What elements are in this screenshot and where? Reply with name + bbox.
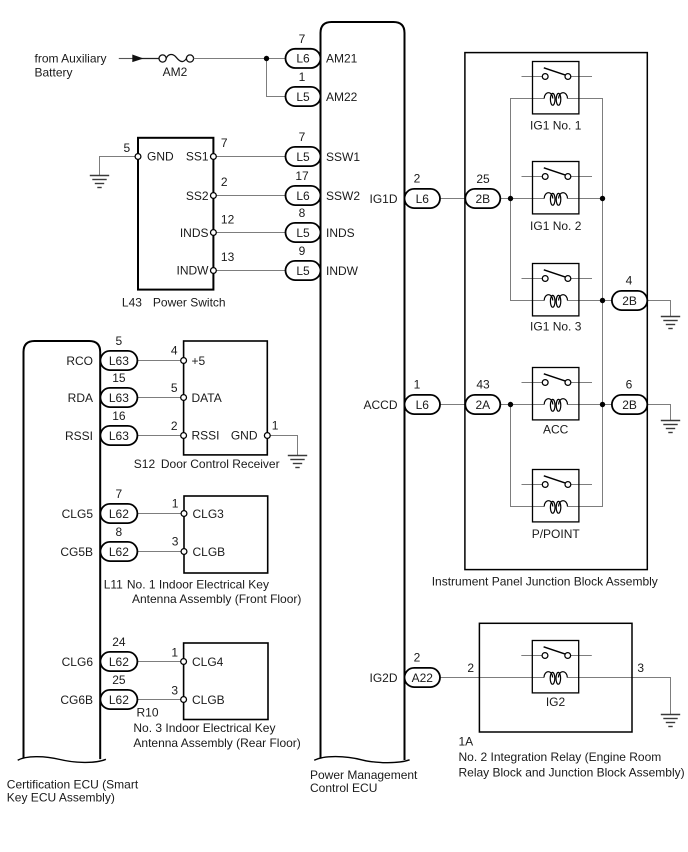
svg-text:IG1 No. 2: IG1 No. 2 [530, 219, 582, 233]
label L11 No. 1 Indoor Electrical Key Antenna Assembly [104, 578, 302, 606]
svg-text:IG2: IG2 [546, 695, 566, 709]
label 1A No. 2 Integration Relay [459, 735, 685, 780]
svg-text:ACC: ACC [543, 422, 569, 436]
wire CLG6 to CLG4 [137, 661, 183, 663]
connector A22 pin 2 (IG2D) [405, 651, 441, 688]
svg-text:CLG5: CLG5 [62, 507, 94, 521]
svg-text:2B: 2B [622, 398, 637, 412]
wire: fuse to AM21 [194, 58, 286, 60]
pin 4 (+5) [181, 358, 187, 364]
wire IG1D L6 to 2B [440, 198, 466, 200]
svg-text:2: 2 [221, 175, 228, 189]
ground: 2B pin 6 [661, 421, 680, 433]
svg-text:AM22: AM22 [326, 90, 358, 104]
svg-text:25: 25 [112, 673, 126, 687]
wire: left rail ACC/PPOINT [511, 405, 533, 507]
wire SS1 to SSW1 connector [216, 156, 285, 158]
wire: branch down to AM22 [267, 59, 286, 97]
connector 2B pin 25 [465, 172, 500, 208]
svg-text:5: 5 [116, 334, 123, 348]
pin 2 SS2 [211, 193, 217, 199]
svg-text:8: 8 [116, 525, 123, 539]
svg-text:INDS: INDS [180, 226, 209, 240]
label Power Management Control ECU [310, 768, 418, 795]
svg-text:Key ECU Assembly): Key ECU Assembly) [7, 791, 115, 805]
pin 5 GND of power switch [135, 154, 141, 160]
svg-text:L63: L63 [109, 354, 129, 368]
node: battery branch junction [264, 56, 269, 61]
svg-text:CG6B: CG6B [60, 693, 93, 707]
connector 2B pin 4 [612, 274, 647, 310]
pin 13 INDW [211, 268, 217, 274]
wire INDW [216, 270, 285, 272]
connector L6 pin 7 (AM21) [286, 32, 321, 68]
relay P/POINT [522, 470, 593, 542]
pin 5 (DATA) [181, 395, 187, 401]
node junction left rail IG1D [508, 196, 513, 201]
svg-text:L6: L6 [416, 398, 430, 412]
svg-text:No. 3 Indoor Electrical Key: No. 3 Indoor Electrical Key [133, 721, 275, 735]
arrow: from Auxiliary Battery [132, 55, 143, 63]
svg-text:7: 7 [221, 136, 228, 150]
svg-text:IG1 No. 3: IG1 No. 3 [530, 319, 582, 333]
svg-text:3: 3 [637, 661, 644, 675]
S12 internal labels [192, 354, 258, 443]
svg-text:9: 9 [299, 244, 306, 258]
wire SS2 to SSW2 connector [216, 195, 285, 197]
node junction right rail ACC [600, 402, 605, 407]
svg-text:L62: L62 [109, 693, 129, 707]
svg-text:1: 1 [414, 378, 421, 392]
relay IG1 No. 2 [522, 162, 593, 233]
svg-text:7: 7 [299, 32, 306, 46]
wire RDA to DATA [137, 397, 183, 399]
svg-text:from Auxiliary: from Auxiliary [35, 52, 107, 66]
svg-text:RSSI: RSSI [192, 429, 220, 443]
pin 3 (CLGB) [181, 549, 187, 555]
svg-text:L5: L5 [296, 150, 310, 164]
wire CG6B to CLGB [137, 699, 183, 701]
svg-text:INDW: INDW [326, 264, 359, 278]
relay IG2 [521, 641, 592, 709]
node junction right rail IG1No3 [600, 298, 605, 303]
svg-text:INDW: INDW [177, 264, 210, 278]
svg-text:L62: L62 [109, 507, 129, 521]
svg-text:1: 1 [272, 418, 279, 432]
ground: 2B pin 4 [661, 317, 680, 329]
svg-text:L5: L5 [296, 226, 310, 240]
Certification ECU outline [24, 341, 101, 759]
svg-text:6: 6 [626, 378, 633, 392]
ground: power switch GND [90, 176, 109, 188]
L11 internal labels [193, 507, 226, 559]
svg-text:1A: 1A [459, 735, 474, 749]
svg-text:Relay Block and Junction Block: Relay Block and Junction Block Assembly) [459, 765, 685, 779]
connector L6 pin 2 (IG1D) [405, 172, 441, 209]
wire IG2 coil to ground [579, 678, 671, 715]
svg-text:2: 2 [467, 661, 474, 675]
wire IG1 No.3 coil to 2B pin 4 [579, 300, 612, 302]
svg-text:3: 3 [171, 683, 178, 697]
connector 2A pin 43 [465, 378, 500, 414]
power switch internal labels [147, 150, 209, 278]
pin 7 SS1 [211, 154, 217, 160]
svg-text:Antenna Assembly (Rear Floor): Antenna Assembly (Rear Floor) [133, 736, 300, 750]
svg-text:43: 43 [476, 378, 490, 392]
svg-text:L63: L63 [109, 429, 129, 443]
relay ACC [522, 368, 593, 437]
svg-text:24: 24 [112, 635, 126, 649]
pin 3 (CLGB) [181, 697, 187, 703]
wire ACC coil to 2B pin 6 [579, 404, 612, 406]
label S12 Door Control Receiver [134, 457, 280, 471]
svg-text:2B: 2B [622, 294, 637, 308]
pin 12 INDS [211, 230, 217, 236]
wire: power switch GND to ground [100, 157, 136, 176]
svg-text:Power Switch: Power Switch [153, 295, 226, 309]
svg-text:RCO: RCO [66, 354, 93, 368]
pin 1 (GND) [264, 433, 270, 439]
node junction left rail ACCD [508, 402, 513, 407]
node junction right rail IG1No2 [600, 196, 605, 201]
svg-text:S12: S12 [134, 457, 156, 471]
svg-text:A22: A22 [412, 671, 434, 685]
connector L62 pin 24 (CLG6) [100, 635, 137, 671]
svg-text:SS1: SS1 [186, 150, 209, 164]
svg-text:3: 3 [172, 535, 179, 549]
R10 internal labels [192, 655, 225, 707]
svg-text:R10: R10 [137, 706, 159, 720]
svg-text:Antenna Assembly (Front Floor): Antenna Assembly (Front Floor) [132, 592, 301, 606]
R10 antenna box [184, 643, 268, 720]
wire 2B to IG1 No.2 coil [500, 198, 532, 200]
svg-text:5: 5 [171, 381, 178, 395]
svg-text:AM2: AM2 [163, 65, 188, 79]
svg-text:25: 25 [476, 172, 490, 186]
svg-text:7: 7 [299, 130, 306, 144]
svg-text:4: 4 [626, 274, 633, 288]
svg-text:16: 16 [112, 409, 126, 423]
svg-text:IG2D: IG2D [369, 671, 397, 685]
svg-text:8: 8 [299, 206, 306, 220]
svg-text:RDA: RDA [68, 391, 93, 405]
svg-text:L6: L6 [296, 52, 310, 66]
fuse AM2 [159, 54, 194, 62]
pin 2 (RSSI) [181, 433, 187, 439]
connector L63 pin 16 (RSSI) [100, 409, 137, 445]
connector L5 pin 1 (AM22) [286, 70, 321, 106]
svg-text:15: 15 [112, 371, 126, 385]
svg-text:L62: L62 [109, 655, 129, 669]
svg-text:CLG6: CLG6 [62, 655, 94, 669]
wire S12 GND to ground [267, 436, 297, 456]
connector L62 pin 25 (CG6B) [100, 673, 137, 709]
svg-text:GND: GND [147, 150, 174, 164]
svg-text:P/POINT: P/POINT [532, 527, 581, 541]
connector L6 pin 1 (ACCD) [405, 378, 441, 415]
svg-text:DATA: DATA [192, 391, 222, 405]
svg-text:L63: L63 [109, 391, 129, 405]
connector L6 pin 17 (SSW2) [286, 169, 321, 205]
svg-text:2: 2 [414, 172, 421, 186]
wire CG5B to CLGB [137, 551, 184, 553]
wire IG1 No.2 coil to right rail [579, 198, 603, 200]
svg-text:No. 2 Integration Relay (Engin: No. 2 Integration Relay (Engine Room [459, 750, 662, 764]
connector 2B pin 6 [612, 378, 647, 414]
svg-text:12: 12 [221, 212, 235, 226]
svg-text:L62: L62 [109, 545, 129, 559]
wire INDS [216, 232, 285, 234]
wire: battery feed to AM2 fuse [119, 58, 133, 60]
relay IG1 No. 1 [522, 62, 593, 133]
svg-text:GND: GND [231, 429, 258, 443]
svg-text:CLGB: CLGB [193, 545, 226, 559]
svg-text:AM21: AM21 [326, 52, 358, 66]
svg-text:Certification ECU (Smart: Certification ECU (Smart [7, 778, 139, 792]
wire RSSI to RSSI [137, 435, 183, 437]
connector L5 pin 8 (INDS) [286, 206, 321, 242]
wire 2A to ACC coil [500, 404, 532, 406]
L11 antenna box [184, 496, 268, 573]
label R10 No. 3 Indoor Electrical Key Antenna Assembly [133, 706, 300, 750]
svg-text:CG5B: CG5B [60, 545, 93, 559]
svg-text:2A: 2A [475, 398, 490, 412]
svg-text:+5: +5 [192, 354, 206, 368]
wire 2B pin4 to ground [647, 301, 670, 317]
svg-text:7: 7 [116, 487, 123, 501]
connector L62 pin 8 (CG5B) [100, 525, 137, 561]
pin 1 (CLG4) [181, 659, 187, 665]
svg-text:L6: L6 [296, 189, 310, 203]
wire ACCD L6 to 2A [440, 404, 466, 406]
svg-text:L43: L43 [122, 295, 142, 309]
connector L62 pin 7 (CLG5) [100, 487, 137, 523]
svg-text:RSSI: RSSI [65, 429, 93, 443]
svg-text:2: 2 [171, 419, 178, 433]
svg-text:INDS: INDS [326, 226, 355, 240]
svg-text:IG1D: IG1D [369, 192, 397, 206]
svg-text:1: 1 [172, 496, 179, 510]
svg-text:Control ECU: Control ECU [310, 781, 377, 795]
ground: IG2 relay [661, 715, 680, 727]
svg-text:L5: L5 [296, 90, 310, 104]
wire A22 to IG2 coil [440, 677, 532, 679]
wire: left rail IG1 coils [511, 99, 533, 301]
svg-text:CLG4: CLG4 [192, 655, 224, 669]
No. 2 Integration Relay box [479, 623, 632, 732]
svg-text:Instrument Panel Junction Bloc: Instrument Panel Junction Block Assembly [432, 574, 658, 588]
svg-text:Power Management: Power Management [310, 768, 418, 782]
Instrument Panel Junction Block Assembly box [465, 53, 647, 570]
connector L5 pin 7 (SSW1) [286, 130, 321, 166]
label Certification ECU [7, 778, 139, 805]
relay IG1 No. 3 [522, 264, 593, 334]
ground: S12 GND [288, 456, 307, 468]
connector L5 pin 9 (INDW) [286, 244, 321, 280]
svg-text:L11: L11 [104, 578, 123, 592]
Power Management Control ECU outline [321, 22, 405, 760]
svg-text:2: 2 [414, 651, 421, 665]
power switch L43 box [138, 138, 213, 290]
svg-text:Door Control Receiver: Door Control Receiver [161, 457, 280, 471]
svg-text:4: 4 [171, 344, 178, 358]
wire: right rail relay coils [579, 99, 603, 507]
Certification ECU wavy bottom [18, 757, 106, 763]
svg-text:1: 1 [171, 645, 178, 659]
svg-text:Battery: Battery [35, 65, 73, 79]
svg-text:13: 13 [221, 250, 235, 264]
svg-text:L6: L6 [416, 192, 430, 206]
svg-text:ACCD: ACCD [363, 398, 397, 412]
svg-text:5: 5 [124, 141, 131, 155]
pin 1 (CLG3) [181, 511, 187, 517]
wire CLG5 to CLG3 [137, 513, 184, 515]
S12 Door Control Receiver box [184, 341, 268, 455]
wire RCO to +5 [137, 360, 183, 362]
wire 2B pin6 to ground [647, 405, 670, 421]
svg-text:1: 1 [299, 70, 306, 84]
svg-text:CLGB: CLGB [192, 693, 225, 707]
svg-text:2B: 2B [475, 192, 490, 206]
svg-text:SSW1: SSW1 [326, 150, 360, 164]
svg-text:L5: L5 [296, 264, 310, 278]
connector L63 pin 5 (RCO) [100, 334, 137, 370]
svg-text:IG1 No. 1: IG1 No. 1 [530, 118, 582, 132]
label from Auxiliary Battery [35, 52, 107, 80]
Power Management ECU wavy bottom [314, 757, 409, 763]
svg-text:CLG3: CLG3 [193, 507, 225, 521]
connector L63 pin 15 (RDA) [100, 371, 137, 407]
svg-text:SS2: SS2 [186, 189, 209, 203]
svg-text:SSW2: SSW2 [326, 189, 360, 203]
label L43 Power Switch [122, 295, 226, 309]
svg-text:No. 1 Indoor Electrical Key: No. 1 Indoor Electrical Key [127, 578, 269, 592]
svg-text:17: 17 [295, 169, 309, 183]
